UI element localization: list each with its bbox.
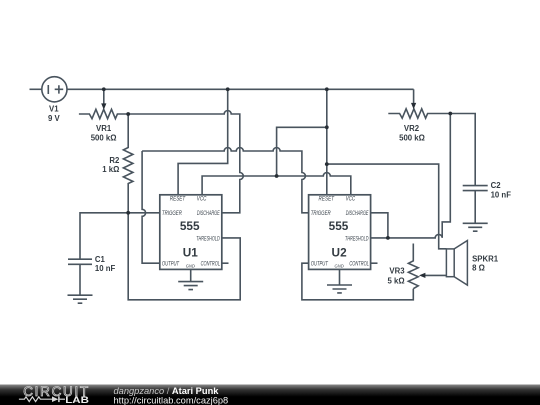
- svg-text:C2: C2: [491, 181, 502, 190]
- svg-text:C1: C1: [95, 255, 106, 264]
- svg-text:U1: U1: [183, 246, 199, 260]
- node rail-U2reset: [325, 87, 329, 91]
- svg-text:DISCHARGE: DISCHARGE: [346, 210, 369, 217]
- wire U1 threshold return: [128, 213, 240, 300]
- svg-text:TRIGGER: TRIGGER: [162, 210, 182, 217]
- U2 pin labels: [311, 195, 369, 269]
- svg-text:RESET: RESET: [319, 196, 335, 203]
- svg-text:U2: U2: [332, 246, 348, 260]
- svg-text:V1: V1: [49, 104, 59, 113]
- ground C2: [463, 223, 488, 231]
- speaker SPKR1: [446, 249, 454, 277]
- wire VR3 wiper from speaker: [425, 274, 447, 276]
- svg-text:DISCHARGE: DISCHARGE: [197, 210, 220, 217]
- svg-text:OUTPUT: OUTPUT: [162, 261, 180, 268]
- svg-text:VR2: VR2: [404, 124, 420, 133]
- svg-text:5 kΩ: 5 kΩ: [388, 276, 405, 285]
- wire U1 trigger line: [80, 213, 160, 259]
- node VR2-C2: [448, 112, 452, 116]
- op-amp U1 box: [160, 195, 222, 270]
- node rail-VR1: [102, 87, 106, 91]
- potentiometer VR2: [388, 109, 450, 118]
- wire VR2 wiper stem: [413, 89, 415, 104]
- svg-text:10 nF: 10 nF: [95, 264, 116, 273]
- U1 pin labels: [162, 195, 220, 269]
- pin stub U2 control: [371, 262, 378, 264]
- svg-text:THRESHOLD: THRESHOLD: [196, 235, 220, 242]
- node U2 discharge-threshold: [386, 236, 390, 240]
- svg-text:CONTROL: CONTROL: [349, 260, 369, 267]
- svg-text:1 kΩ: 1 kΩ: [102, 165, 119, 174]
- ground C1: [68, 295, 93, 303]
- wire U2 output to VR3: [302, 263, 413, 300]
- svg-text:THRESHOLD: THRESHOLD: [345, 235, 369, 242]
- potentiometer VR3: [408, 244, 418, 289]
- capacitor C2: [463, 186, 488, 224]
- svg-text:VR1: VR1: [96, 124, 112, 133]
- wire U2 threshold to VR2: [371, 114, 451, 238]
- wire top rail: [67, 88, 414, 90]
- node VR1-R2: [126, 112, 130, 116]
- footer bar: [0, 385, 540, 405]
- svg-text:8 Ω: 8 Ω: [472, 263, 485, 272]
- svg-text:OUTPUT: OUTPUT: [311, 261, 329, 268]
- pin stub U1 control: [222, 262, 229, 264]
- svg-text:GND: GND: [186, 264, 196, 270]
- svg-text:10 nF: 10 nF: [491, 190, 512, 199]
- node trigger-R2: [126, 211, 130, 215]
- svg-text:555: 555: [180, 219, 200, 233]
- svg-text:RESET: RESET: [170, 196, 186, 203]
- op-amp U2 box: [309, 195, 371, 270]
- resistor R2: [123, 114, 132, 213]
- wire top rail to U1 reset: [178, 89, 228, 195]
- wire top rail left stub: [30, 88, 42, 90]
- svg-text:SPKR1: SPKR1: [472, 254, 499, 263]
- wire VR2 to C2: [450, 114, 475, 186]
- wire top rail to U2 reset: [326, 89, 328, 195]
- voltage source V1: [42, 77, 67, 102]
- node reset branch upper: [325, 125, 329, 129]
- wire U1 vcc line H3: [202, 173, 351, 195]
- arrowhead VR3 wiper: [419, 273, 425, 278]
- footer logo diode: [52, 396, 58, 402]
- node rail-U1reset: [226, 87, 230, 91]
- svg-text:VCC: VCC: [197, 195, 207, 202]
- potentiometer VR1: [79, 109, 128, 118]
- svg-text:VCC: VCC: [346, 195, 356, 202]
- svg-text:555: 555: [329, 219, 349, 233]
- svg-text:LAB: LAB: [65, 395, 89, 405]
- arrowhead VR1 wiper: [101, 103, 106, 109]
- ground U1: [178, 282, 203, 290]
- arrowhead VR2 wiper: [411, 103, 416, 109]
- wire VR1 wiper stem: [103, 89, 105, 104]
- svg-text:TRIGGER: TRIGGER: [311, 210, 331, 217]
- wire U2 discharge: [371, 213, 388, 238]
- wire U2 gnd: [339, 269, 341, 285]
- svg-text:500 kΩ: 500 kΩ: [91, 134, 117, 143]
- svg-text:500 kΩ: 500 kΩ: [399, 134, 425, 143]
- wire VR1 right to U1 discharge: [128, 111, 243, 213]
- svg-text:GND: GND: [335, 264, 345, 270]
- wire U1 gnd: [190, 269, 192, 281]
- ground U2: [327, 285, 352, 293]
- svg-text:9 V: 9 V: [48, 114, 61, 123]
- node reset branch speaker: [325, 162, 329, 166]
- capacitor C1: [68, 259, 92, 295]
- wire U1 output vertical: [142, 151, 160, 263]
- node vcc branch: [275, 174, 279, 178]
- svg-text:VR3: VR3: [389, 267, 405, 276]
- wire reset net to speaker top: [327, 164, 447, 249]
- svg-text:CONTROL: CONTROL: [201, 260, 221, 267]
- svg-text:R2: R2: [109, 156, 120, 165]
- wire U1 output to U2 trigger: [142, 148, 309, 213]
- wire vcc branch to reset net: [277, 127, 327, 176]
- footer logo resistor: [19, 397, 52, 402]
- svg-text:http://circuitlab.com/cazj6p8: http://circuitlab.com/cazj6p8: [114, 395, 229, 405]
